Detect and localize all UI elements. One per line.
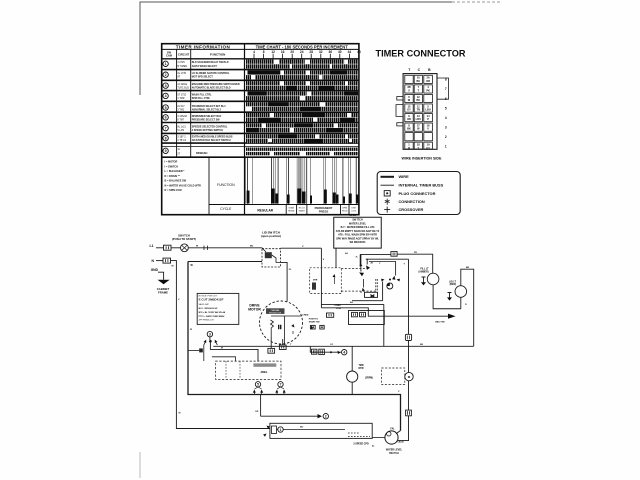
- svg-text:W4 DRAIN B4: W4 DRAIN B4: [350, 241, 366, 244]
- svg-text:B78 + BL 7K2D7 AB 9PL4A: B78 + BL 7K2D7 AB 9PL4A: [199, 311, 226, 314]
- legend cell: [165, 161, 202, 193]
- wire upper branch: [321, 301, 383, 346]
- svg-text:START SW: START SW: [309, 320, 320, 323]
- long bus wire: [213, 345, 473, 347]
- water level pressure switch: [372, 427, 404, 455]
- svg-text:6 RED: 6 RED: [335, 305, 342, 307]
- vertical harness wire: [366, 259, 409, 410]
- svg-text:PUSH TO: PUSH TO: [309, 319, 319, 321]
- svg-text:HOLD: HOLD: [342, 210, 348, 212]
- svg-text:LBU: LBU: [425, 108, 430, 112]
- svg-text:MOT SPD SELECT: MOT SPD SELECT: [192, 76, 214, 79]
- svg-text:L = BLEACHER *: L = BLEACHER *: [165, 170, 185, 173]
- svg-text:3 TM2: 3 TM2: [177, 109, 184, 112]
- svg-text:SW ITCH: SW ITCH: [389, 453, 399, 455]
- motor lead plugs: [268, 337, 286, 353]
- svg-text:B TIMER: B TIMER: [177, 65, 187, 68]
- wire neutral branch into lid switch: [188, 262, 262, 268]
- svg-text:7: 7: [445, 87, 447, 91]
- svg-text:LK SLOWER AGITATE CONTROL: LK SLOWER AGITATE CONTROL: [192, 72, 230, 75]
- svg-text:GY: GY: [330, 344, 334, 346]
- svg-text:SOAK: SOAK: [289, 206, 295, 209]
- svg-text:BK: BK: [466, 267, 470, 269]
- svg-text:(RED): (RED): [450, 284, 457, 286]
- svg-text:1: 1: [445, 145, 447, 149]
- svg-text:44: 44: [348, 50, 352, 54]
- svg-text:SPIN: SPIN: [342, 207, 347, 209]
- svg-text:OR: OR: [407, 117, 411, 121]
- svg-text:MACHINE MED PRESSURE SWITCHOVE: MACHINE MED PRESSURE SWITCHOVER: [192, 83, 240, 86]
- svg-text:2L 517: 2L 517: [177, 105, 185, 108]
- svg-text:1: 1: [280, 428, 282, 432]
- svg-text:CALIB: CALIB: [397, 441, 404, 444]
- wire P4 to water level pressure switch: [398, 416, 409, 441]
- plug connector 7: [278, 382, 283, 387]
- svg-text:2 SPEED SETTING SWITCH: 2 SPEED SETTING SWITCH: [192, 129, 223, 132]
- label above water level box: [349, 215, 357, 217]
- timer buss line: [212, 357, 236, 361]
- svg-text:16: 16: [281, 50, 285, 54]
- console return wire (left/bottom of box): [188, 262, 401, 434]
- svg-text:OR: OR: [255, 411, 259, 413]
- timer information table: [162, 44, 361, 215]
- svg-text:9 TM7: 9 TM7: [177, 118, 184, 121]
- svg-text:12: 12: [271, 50, 275, 54]
- svg-text:3 TB C4: 3 TB C4: [177, 139, 186, 142]
- page frame top edge: [140, 2, 500, 478]
- svg-text:V: V: [408, 88, 410, 92]
- svg-text:3 1452M: 3 1452M: [177, 115, 186, 118]
- svg-text:4: 4: [253, 50, 255, 54]
- svg-text:INTERNAL TIMER BUSS: INTERNAL TIMER BUSS: [399, 183, 444, 188]
- plug connector 2: [323, 414, 328, 419]
- svg-text:AUTOMATIC BLADE SELECT BLD: AUTOMATIC BLADE SELECT BLD: [192, 87, 231, 90]
- svg-text:32: 32: [319, 50, 323, 54]
- svg-text:WATER LEVEL: WATER LEVEL: [349, 222, 367, 225]
- lid lock light LT2: [447, 281, 467, 300]
- svg-text:B-Y : WATER RINSE FILL AT4: B-Y : WATER RINSE FILL AT4: [341, 226, 375, 229]
- svg-text:3 1B7 2: 3 1B7 2: [177, 136, 186, 139]
- svg-text:FRAME: FRAME: [158, 291, 168, 295]
- contacts under 7: [275, 387, 285, 395]
- plug connector 3: [188, 331, 258, 361]
- switch conduit block: [352, 279, 400, 301]
- svg-text:BK: BK: [420, 344, 424, 346]
- svg-text:WIRE: WIRE: [399, 174, 410, 179]
- svg-text:3: 3: [165, 84, 167, 88]
- wire lid switch to node: [281, 246, 322, 248]
- svg-text:MTR: MTR: [359, 368, 364, 370]
- L1 line input: [150, 244, 164, 248]
- svg-text:WATER LEVEL: WATER LEVEL: [386, 449, 403, 452]
- svg-text:2: 2: [445, 135, 447, 139]
- crossover symbol: [387, 283, 393, 289]
- lid switch S2: [261, 230, 281, 267]
- wire to bus (via lamp leg): [321, 248, 324, 308]
- svg-text:TN: TN: [417, 108, 421, 112]
- plug connector P2 (N): [163, 258, 171, 263]
- svg-text:CIRCUIT: CIRCUIT: [178, 52, 190, 56]
- svg-text:FAL: FAL: [390, 427, 395, 430]
- svg-text:PK: PK: [426, 88, 430, 92]
- svg-text:V: V: [427, 127, 429, 131]
- wire P3 to fill light: [397, 252, 433, 273]
- svg-text:BVJ - 9RD04L52 4F: BVJ - 9RD04L52 4F: [199, 307, 219, 310]
- svg-text:36: 36: [329, 50, 333, 54]
- svg-text:7: 7: [280, 383, 282, 387]
- svg-text:BLK SOLENOID RELAY SW BLD: BLK SOLENOID RELAY SW BLD: [192, 61, 229, 64]
- svg-text:DISPENSER SELECT BLD: DISPENSER SELECT BLD: [192, 115, 222, 118]
- two speed clutch coil: [263, 423, 372, 445]
- connection symbol on harness: [405, 334, 411, 340]
- svg-text:FILL LT: FILL LT: [420, 269, 429, 271]
- svg-text:PROTECTOR: PROTECTOR: [269, 312, 281, 314]
- svg-text:24: 24: [300, 50, 304, 54]
- svg-text:D = DRAIN **: D = DRAIN **: [165, 175, 180, 178]
- svg-text:SW ITCH: SW ITCH: [352, 219, 363, 222]
- wire water level box to timer contacts: [335, 248, 337, 268]
- svg-text:BK: BK: [407, 127, 411, 131]
- svg-text:KNIT: KNIT: [352, 207, 357, 209]
- svg-text:1: 1: [165, 62, 167, 66]
- svg-text:6A: 6A: [350, 301, 353, 304]
- svg-text:R: R: [408, 146, 410, 150]
- svg-text:CYCLE: CYCLE: [220, 207, 232, 211]
- wire labels: [178, 252, 467, 429]
- svg-text:5: 5: [445, 106, 447, 110]
- ground GND: [151, 268, 170, 295]
- timer internal contacts (dashed): [310, 268, 377, 294]
- svg-text:4J 2MCE: 4J 2MCE: [177, 83, 187, 86]
- wire to plug 2: [261, 395, 322, 419]
- wire L1 to start switch: [171, 247, 181, 249]
- N neutral input: [152, 259, 164, 263]
- svg-text:GND: GND: [151, 268, 159, 272]
- cycle row: [286, 205, 349, 215]
- svg-text:PLUG CONNECTOR: PLUG CONNECTOR: [399, 191, 436, 196]
- timer block (dashed): [216, 361, 282, 379]
- motor start labels: [302, 305, 341, 329]
- svg-text:(2RPM): (2RPM): [365, 378, 373, 380]
- svg-text:M: M: [221, 347, 223, 349]
- svg-text:I = SWITCH: I = SWITCH: [165, 165, 179, 168]
- svg-text:CONNECTION: CONNECTION: [399, 199, 425, 204]
- symbol legend box: [377, 172, 460, 215]
- svg-text:ADJUSTED BLD SELECT SWITCH: ADJUSTED BLD SELECT SWITCH: [192, 139, 231, 142]
- svg-text:8: 8: [263, 50, 265, 54]
- svg-text:TIME CHART - 180 SECONDS PER I: TIME CHART - 180 SECONDS PER INCREMENT: [256, 44, 349, 49]
- belt switch wire with arrow: [321, 308, 455, 324]
- svg-text:1 2725: 1 2725: [177, 61, 185, 64]
- svg-text:BU: BU: [416, 79, 420, 83]
- svg-text:WIRE INSERTION SIDE: WIRE INSERTION SIDE: [402, 157, 443, 161]
- svg-text:EX LG: EX LG: [299, 207, 305, 209]
- wire lid switch to drive motor: [281, 262, 293, 301]
- svg-text:TM SW: TM SW: [349, 215, 357, 217]
- svg-text:GY: GY: [426, 146, 430, 150]
- fill light LT1: [419, 269, 439, 286]
- row headers and circled numbers: [163, 61, 240, 156]
- plug connector P1 (L1): [164, 245, 172, 250]
- plug connector P4: [406, 410, 412, 416]
- svg-text:WASH FILL CTRL: WASH FILL CTRL: [192, 93, 212, 96]
- svg-text:CCW: CCW: [336, 308, 341, 310]
- svg-text:9: 9: [165, 149, 167, 153]
- svg-text:4: 4: [165, 94, 167, 98]
- svg-text:REWASH: REWASH: [196, 151, 208, 155]
- svg-text:MOTOR: MOTOR: [248, 308, 261, 312]
- svg-text:CROSSOVER: CROSSOVER: [399, 207, 424, 212]
- svg-text:1 TMR: 1 TMR: [177, 97, 184, 100]
- svg-text:E CUT 2NBD412F: E CUT 2NBD412F: [199, 298, 224, 302]
- table row separators: [162, 70, 359, 205]
- svg-text:P: P: [427, 117, 429, 121]
- svg-text:4FP PB9DL4 2V: 4FP PB9DL4 2V: [199, 320, 215, 322]
- contacts under 5: [253, 387, 263, 395]
- svg-text:TLRC BLD: TLRC BLD: [177, 87, 189, 90]
- svg-text:4: 4: [445, 116, 447, 120]
- water level switch box SW3: [334, 217, 382, 248]
- svg-text:LID LT: LID LT: [449, 281, 457, 283]
- svg-text:JDEL: JDEL: [260, 370, 267, 374]
- wire lid light bottom: [460, 297, 462, 308]
- svg-text:VALID 4HP: VALID 4HP: [199, 303, 210, 306]
- svg-text:OR: OR: [426, 79, 430, 83]
- svg-text:AT4-B2 EMPTY SOAK NO AGIT B2-Y: AT4-B2 EMPTY SOAK NO AGIT B2-Y4: [336, 230, 380, 233]
- svg-text:WASH: WASH: [299, 209, 305, 212]
- svg-text:5: 5: [165, 106, 167, 110]
- svg-text:3: 3: [445, 125, 447, 129]
- plug connector 5: [255, 382, 260, 387]
- svg-text:PRESSURE SELECT SW: PRESSURE SELECT SW: [192, 118, 221, 121]
- svg-text:LBU: LBU: [416, 117, 421, 121]
- svg-text:40: 40: [338, 50, 342, 54]
- push-to-start switch S1: [172, 234, 196, 252]
- svg-text:BU: BU: [250, 246, 254, 248]
- svg-text:REGULAR: REGULAR: [257, 208, 273, 212]
- svg-text:28: 28: [309, 50, 313, 54]
- svg-text:BU: BU: [416, 98, 420, 102]
- svg-text:2: 2: [165, 73, 167, 77]
- svg-text:L1: L1: [150, 244, 154, 248]
- svg-text:AGITA WASH SELECT: AGITA WASH SELECT: [192, 65, 218, 68]
- plug connector 1: [278, 427, 283, 432]
- drive motor M1: [248, 301, 302, 345]
- svg-text:5 LM2: 5 LM2: [177, 129, 184, 132]
- svg-text:MTR: MTR: [313, 280, 318, 282]
- svg-text:CYCL: CYCL: [351, 210, 357, 212]
- start switch assembly box: [349, 311, 385, 325]
- svg-text:4: 4: [343, 351, 345, 355]
- svg-text:TIMER CONNECTOR: TIMER CONNECTOR: [376, 49, 466, 60]
- svg-text:TMR: TMR: [359, 365, 364, 367]
- neutral wire long run: [171, 261, 270, 429]
- svg-text:PK: PK: [414, 252, 417, 254]
- water temperature switch contacts: [356, 254, 396, 291]
- wire fill light down: [433, 285, 461, 309]
- svg-text:RINSE: RINSE: [288, 210, 295, 212]
- wire lid light top loop: [461, 267, 474, 347]
- svg-text:(PUSH TO START): (PUSH TO START): [172, 237, 196, 241]
- svg-text:B = BALANCE SW: B = BALANCE SW: [165, 180, 187, 183]
- svg-text:P77V + RAPD 2VBD BBN4: P77V + RAPD 2VBD BBN4: [199, 315, 226, 318]
- timer connector body: [396, 68, 449, 150]
- svg-text:TIMER INFORMATION: TIMER INFORMATION: [176, 44, 231, 49]
- svg-text:SPK WAY RINSE AGIT SPRAY BY WL: SPK WAY RINSE AGIT SPRAY BY WL: [336, 237, 379, 240]
- notes box: [197, 293, 239, 324]
- svg-text:FUNCTION: FUNCTION: [210, 52, 226, 56]
- svg-text:FUNCTION: FUNCTION: [217, 183, 235, 187]
- svg-text:4 RED: 4 RED: [302, 314, 309, 317]
- svg-text:48: 48: [357, 50, 361, 54]
- svg-text:SPIN FILL CTRL: SPIN FILL CTRL: [192, 97, 211, 100]
- svg-text:(open position): (open position): [261, 234, 281, 238]
- plug connector P3: [391, 252, 397, 257]
- svg-text:5: 5: [257, 383, 259, 387]
- svg-text:CAM: CAM: [166, 54, 172, 58]
- svg-text:2: 2: [325, 415, 327, 419]
- svg-text:6: 6: [165, 116, 167, 120]
- svg-text:SPEEDE SELECTED CONTROL: SPEEDE SELECTED CONTROL: [192, 126, 228, 129]
- svg-text:6A: 6A: [345, 252, 348, 255]
- svg-text:TRANSFER SELECT SET BL4: TRANSFER SELECT SET BL4: [192, 105, 226, 108]
- svg-text:Y: Y: [417, 146, 419, 150]
- svg-text:I = MOTOR: I = MOTOR: [165, 161, 178, 164]
- svg-text:BELT SW: BELT SW: [435, 322, 444, 324]
- timer motor TM1: [347, 346, 374, 394]
- connection ticks on wire: [204, 246, 208, 250]
- svg-text:8L 1v21: 8L 1v21: [177, 126, 186, 129]
- svg-text:BU: BU: [300, 427, 304, 429]
- svg-text:EXTRA MED DOUBLE SPEED BLDS: EXTRA MED DOUBLE SPEED BLDS: [192, 136, 233, 139]
- plug connector 4 cluster: [310, 346, 347, 355]
- svg-text:8: 8: [165, 136, 167, 140]
- svg-text:3L 1745: 3L 1745: [177, 72, 186, 75]
- svg-text:GY: GY: [407, 108, 411, 112]
- svg-text:7: 7: [165, 126, 167, 130]
- svg-text:5T 2752: 5T 2752: [177, 93, 186, 96]
- drain motor (dashed): [382, 368, 414, 385]
- svg-text:ABNORMAL SELECT BL2: ABNORMAL SELECT BL2: [192, 109, 222, 112]
- time chart bars: [246, 60, 358, 156]
- svg-text:3: 3: [209, 333, 211, 337]
- svg-text:20: 20: [290, 50, 294, 54]
- svg-text:2-SPEED CPD: 2-SPEED CPD: [353, 444, 369, 446]
- svg-text:AT8 : FULL WASH SPIN BY4 WTR: AT8 : FULL WASH SPIN BY4 WTR: [338, 234, 377, 237]
- wire start switch to lid switch: [188, 246, 262, 248]
- svg-text:PRESS: PRESS: [319, 209, 329, 213]
- svg-text:R = SPIN CCW: R = SPIN CCW: [165, 189, 183, 192]
- svg-text:N = WATER VALVE COLD WTR: N = WATER VALVE COLD WTR: [165, 184, 202, 187]
- svg-text:(AMBER): (AMBER): [419, 270, 429, 273]
- cycle guide lines: [246, 158, 357, 204]
- wire P3 left branch: [360, 254, 391, 266]
